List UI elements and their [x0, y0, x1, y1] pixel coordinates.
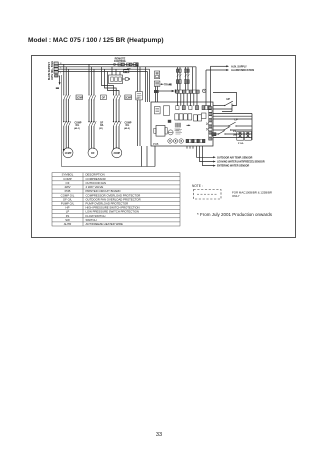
- relay column extra wires: [192, 67, 194, 90]
- overload COMP O/L branch1: [63, 121, 71, 126]
- contactor coil box assembly: [109, 75, 123, 84]
- dark connector marks: [154, 90, 159, 93]
- L-bend feeders to branch 3: [102, 67, 114, 95]
- diagram frame: [32, 56, 296, 238]
- wire branch2 lower: [88, 100, 90, 122]
- svg-text:(49-1): (49-1): [74, 127, 80, 130]
- contactor 1CMP contacts: [63, 95, 70, 101]
- PCB outline: [151, 102, 213, 146]
- svg-text:LP: LP: [235, 118, 239, 121]
- PCB small box top-left: [155, 107, 161, 114]
- connector plug on bus R: [113, 63, 115, 65]
- contactor coil box 1CMP: [76, 95, 82, 100]
- enclosure left edge: [61, 75, 63, 167]
- svg-text:OF: OF: [102, 97, 106, 100]
- coil output connector: [123, 78, 126, 80]
- svg-text:HP: HP: [227, 98, 231, 101]
- svg-text:O/L: O/L: [126, 125, 130, 127]
- earth lead with arrow: [58, 76, 61, 83]
- SW switch row: [212, 133, 216, 136]
- svg-text:415V 3N~ 50Hz: 415V 3N~ 50Hz: [50, 60, 54, 80]
- sensor wire 1: [197, 146, 214, 157]
- wire bus N: [58, 71, 147, 73]
- svg-text:OUTDOOR AIR TEMP. SENSOR: OUTDOOR AIR TEMP. SENSOR: [217, 156, 253, 159]
- motor OF: [88, 148, 98, 158]
- wire branch1 lower: [63, 100, 65, 122]
- svg-text:2CMP: 2CMP: [113, 152, 120, 155]
- wire bus T: [58, 68, 149, 70]
- contactor OF contacts: [89, 95, 96, 101]
- svg-text:AHTR: AHTR: [64, 222, 72, 226]
- coil box feeds: [111, 67, 113, 75]
- wire bus S: [58, 66, 196, 68]
- sensor wire 3: [203, 146, 214, 166]
- aux supply arrow: [211, 65, 227, 67]
- PCB bottom connector strip: [186, 139, 205, 143]
- svg-text:ENTERING WATER SENSOR: ENTERING WATER SENSOR: [217, 165, 250, 168]
- svg-text:ONLY: ONLY: [232, 194, 240, 198]
- svg-text:1CMP: 1CMP: [76, 97, 83, 99]
- relay column 49C: [185, 67, 187, 90]
- wire to motor 1: [63, 126, 65, 150]
- svg-text:ALARM INDICATION: ALARM INDICATION: [231, 69, 254, 72]
- PCB transformer: [156, 126, 165, 137]
- transformer TRANS: [154, 81, 160, 86]
- terminal block TB1: [54, 62, 58, 77]
- svg-text:P O/L: P O/L: [238, 143, 244, 145]
- overload 2CMP O/L: [113, 121, 121, 126]
- overload OF O/L: [89, 121, 97, 126]
- sensor wire 2: [200, 146, 214, 162]
- svg-text:(49-2): (49-2): [124, 127, 130, 130]
- alarm indication arrow: [206, 69, 227, 71]
- PCB barcode hatch: [175, 123, 180, 128]
- svg-text:ANTIFREEZE HEATER WIRE: ANTIFREEZE HEATER WIRE: [86, 222, 124, 226]
- wires aux drop to PCB: [210, 66, 212, 106]
- svg-text:1CMP: 1CMP: [65, 152, 72, 155]
- wire drops branch 1: [63, 64, 65, 95]
- svg-text:O/L: O/L: [76, 125, 80, 127]
- switch SW on bus R: [127, 63, 130, 66]
- PCB bottom circles: [168, 139, 172, 143]
- wires below PCB to 4WV area: [141, 146, 143, 167]
- enclosure bottom edge: [62, 166, 156, 168]
- svg-text:PCB: PCB: [153, 142, 159, 146]
- PCB bottom stub pins: [187, 146, 193, 149]
- PCB relay squares row: [175, 114, 202, 121]
- svg-text:4WV: 4WV: [136, 98, 141, 100]
- wire to motor 3: [113, 126, 115, 150]
- wire branch3 lower: [113, 100, 115, 122]
- contactor coil box OF: [101, 95, 107, 100]
- wire drops branch 2: [88, 64, 90, 95]
- wire to motor 2: [88, 126, 90, 150]
- terminal strip row: [176, 90, 199, 93]
- svg-text:AUX. SUPPLY: AUX. SUPPLY: [231, 65, 247, 68]
- PCB tiny text lines: [176, 130, 183, 135]
- wire bottom row: [213, 137, 252, 139]
- svg-text:(51): (51): [99, 128, 103, 130]
- contactor coil box 2CMP: [125, 95, 132, 100]
- svg-text:33: 33: [156, 432, 162, 438]
- PUMP O/L boxes: [237, 131, 244, 140]
- wires terminal row to PCB: [178, 93, 198, 106]
- svg-text:OF: OF: [91, 152, 95, 155]
- svg-text:Model : MAC 075 / 100 / 125 BR: Model : MAC 075 / 100 / 125 BR (Heatpump…: [28, 37, 164, 44]
- svg-text:LEAVING WATER (ANTIFREEZE) SEN: LEAVING WATER (ANTIFREEZE) SENSOR: [217, 161, 265, 164]
- PCB dark chip: [168, 120, 171, 123]
- wire feeds to PCB left: [137, 64, 139, 146]
- text tiny block right of transformer: [175, 129, 181, 130]
- motor 2CMP: [112, 148, 122, 158]
- PCB arrow mark: [187, 124, 190, 126]
- svg-text:O/L: O/L: [100, 125, 104, 127]
- contactor 2CMP contacts: [113, 95, 121, 101]
- fuse F: [155, 71, 160, 79]
- PCB right edge connectors: [206, 107, 212, 141]
- svg-text:2CMP: 2CMP: [125, 97, 132, 99]
- relay 49 box: [124, 70, 129, 73]
- svg-text:* From July 2001 Production on: * From July 2001 Production onwards: [197, 212, 273, 217]
- 4WV coil box: [136, 92, 143, 100]
- motor 1CMP: [63, 148, 73, 158]
- PCB rect component: [164, 106, 170, 116]
- svg-text:NOTE :: NOTE :: [192, 184, 203, 188]
- PCB screw circle: [168, 130, 173, 135]
- wire bus R: [58, 63, 137, 65]
- PCB top terminals: [176, 106, 211, 110]
- note dashed box: [194, 190, 222, 200]
- symbol table: [52, 173, 180, 226]
- wires PCB right to switches: [213, 104, 232, 112]
